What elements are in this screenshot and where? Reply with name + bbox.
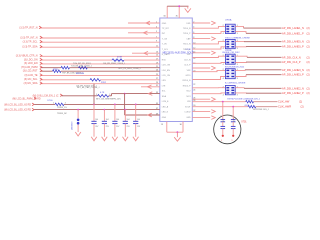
svg-text:0201: 0201 — [245, 105, 249, 107]
wire filter input 1 — [192, 56, 225, 57]
svg-text:(2): (2) — [307, 73, 310, 77]
ground arrow LED branch — [75, 132, 81, 136]
svg-text:25V: 25V — [106, 126, 110, 128]
wire row 93.6 with resistor tap — [125, 93, 160, 95]
svg-text:2: 2 — [109, 94, 110, 96]
svg-text:(2): (2) — [307, 68, 310, 72]
svg-text:3: 3 — [231, 116, 232, 118]
svg-text:22: 22 — [193, 84, 195, 86]
wire rail B y=109.3 — [34, 109, 160, 111]
svg-text:AP_DSI_LANE3_P: AP_DSI_LANE3_P — [282, 73, 304, 77]
tall branch x=93.7 — [93, 84, 95, 105]
svg-text:CHOKE_CM_2012: CHOKE_CM_2012 — [222, 52, 240, 54]
svg-text:21: 21 — [156, 66, 158, 68]
wire top power rail — [167, 5, 188, 7]
direction arrow row 93.6 — [148, 92, 152, 96]
svg-text:TLB_BK_LBN_Y2006_J: TLB_BK_LBN_Y2006_J — [71, 66, 92, 68]
svg-text:25: 25 — [156, 74, 158, 76]
svg-text:(2): (2) — [307, 26, 310, 30]
svg-text:4: 4 — [223, 33, 224, 35]
wire stub+arrow right y=68.0 — [192, 67, 210, 69]
svg-text:GND: GND — [162, 23, 167, 25]
svg-text:4: 4 — [223, 64, 224, 66]
svg-text:AP_DSI_CLK_N: AP_DSI_CLK_N — [282, 55, 301, 59]
svg-text:SDA: SDA — [162, 95, 167, 98]
svg-text:29: 29 — [156, 82, 158, 84]
svg-text:B2/R706: B2/R706 — [76, 73, 85, 75]
svg-text:TR20K_1%: TR20K_1% — [57, 107, 67, 109]
svg-text:4.7K: 4.7K — [100, 92, 105, 94]
direction arrow on row y=23.0 — [146, 21, 150, 25]
svg-text:13: 13 — [161, 124, 163, 126]
svg-text:(2): (2) — [307, 86, 310, 90]
svg-text:AP_DSI_LANE2_P: AP_DSI_LANE2_P — [282, 91, 304, 95]
wire left row y=56.3 — [42, 55, 160, 57]
svg-text:SDC_PK_R201_Y2006_J: SDC_PK_R201_Y2006_J — [118, 68, 140, 70]
svg-text:2: 2 — [220, 116, 221, 118]
junction crystal drop 2 — [232, 106, 234, 108]
svg-text:CLK_N: CLK_N — [184, 59, 191, 61]
wire left row y=79.8 — [41, 79, 91, 81]
wire left row y=53.2 — [132, 52, 160, 54]
junction dots rail B — [77, 109, 79, 111]
svg-text:CLIK_HWR: CLIK_HWR — [278, 105, 291, 109]
svg-text:(2): (2) — [307, 40, 310, 44]
svg-text:9: 9 — [156, 41, 157, 43]
svg-text:(M) LCD_BL_LED_K2 RD: (M) LCD_BL_LED_K2 RD — [4, 110, 31, 112]
wire filter input 2 — [192, 77, 225, 80]
svg-text:104: 104 — [106, 119, 109, 121]
resistor second row 67.7 — [79, 66, 88, 69]
wire filter output 1 — [235, 26, 243, 28]
svg-text:36: 36 — [180, 124, 182, 126]
wire row 113.6 — [125, 114, 160, 116]
svg-text:U_UART: U_UART — [162, 53, 171, 56]
IC U700 microcontroller body — [160, 18, 193, 122]
crystal branch pad dot — [232, 135, 234, 137]
svg-text:2: 2 — [223, 86, 224, 88]
junction crystal drop 1 — [222, 101, 224, 103]
svg-text:AP_DSI_LANE2_N: AP_DSI_LANE2_N — [282, 86, 304, 90]
svg-text:14: 14 — [193, 51, 195, 53]
svg-text:(3.3) TP_RST_N: (3.3) TP_RST_N — [19, 26, 37, 29]
wire left row y=75.6 — [41, 75, 160, 77]
svg-text:CLK_P: CLK_P — [184, 65, 191, 67]
svg-text:25V: 25V — [127, 126, 131, 128]
wire filter input 1 — [192, 87, 225, 89]
svg-text:GPIO: GPIO — [185, 75, 190, 77]
svg-text:1: 1 — [221, 140, 223, 142]
wire left row y=83.7 — [41, 83, 160, 85]
svg-text:AP_DSI_LANE1_N: AP_DSI_LANE1_N — [282, 26, 304, 30]
LED D700 branch — [77, 110, 79, 119]
wire filter output 2 — [235, 46, 246, 48]
ground arrow C74 — [123, 137, 129, 141]
svg-text:22P: 22P — [234, 118, 236, 122]
svg-text:TXD1_P: TXD1_P — [183, 49, 191, 51]
wire row CLIK_HWR y=106.7 — [192, 106, 248, 108]
svg-text:25V: 25V — [137, 126, 141, 128]
svg-text:17: 17 — [156, 59, 158, 61]
svg-text:32: 32 — [193, 110, 195, 112]
svg-text:24: 24 — [193, 89, 195, 91]
svg-text:4: 4 — [223, 48, 224, 50]
svg-text:AP_DSI_CLK_P: AP_DSI_CLK_P — [282, 60, 301, 64]
svg-text:35: 35 — [176, 16, 178, 18]
svg-text:LCM_E: LCM_E — [162, 101, 169, 103]
wire rail A y=104.1 — [34, 103, 55, 105]
ground arrow C75 — [133, 137, 139, 141]
svg-text:31: 31 — [156, 85, 158, 87]
wire left row y=67.7 — [41, 67, 62, 69]
capacitor C74 branch — [124, 110, 126, 122]
svg-text:(3) LDO_EN: (3) LDO_EN — [24, 62, 38, 65]
svg-text:LDO_ON: LDO_ON — [162, 65, 171, 67]
svg-text:(3.3) VBUS_CTR_N: (3.3) VBUS_CTR_N — [16, 55, 38, 58]
svg-text:103_PR_RXFY_Y2006_J: 103_PR_RXFY_Y2006_J — [103, 63, 125, 65]
svg-text:1: 1 — [231, 140, 233, 142]
svg-text:11: 11 — [156, 46, 158, 48]
svg-text:(M) 1V8_LCM_EN_1 (C: (M) 1V8_LCM_EN_1 (C — [33, 94, 59, 97]
svg-text:(2): (2) — [307, 45, 310, 49]
wire left row y=23.0 — [128, 22, 160, 24]
svg-text:3: 3 — [237, 94, 238, 96]
svg-text:TXD1_N: TXD1_N — [183, 44, 191, 46]
wire filter output 1 — [235, 41, 244, 43]
svg-text:TXD0_P: TXD0_P — [183, 33, 191, 35]
wire left row y=38.0 — [41, 37, 160, 39]
svg-text:AP_DSI_LANE1_P: AP_DSI_LANE1_P — [282, 31, 304, 35]
svg-text:2: 2 — [223, 55, 224, 57]
svg-text:25V: 25V — [116, 126, 120, 128]
wire row CLIK_HW y=101.7 — [192, 101, 245, 103]
svg-text:4: 4 — [223, 94, 224, 96]
svg-text:(M) LCD_BL_LED_A2 RD: (M) LCD_BL_LED_A2 RD — [4, 103, 31, 106]
svg-text:RXD0_N: RXD0_N — [183, 80, 191, 82]
svg-text:(2): (2) — [307, 31, 310, 35]
svg-text:8: 8 — [193, 37, 194, 39]
wire top pin vertical 1 — [166, 6, 168, 18]
ground arrow C73 — [112, 137, 118, 141]
svg-text:AP_DSI_LANE0_P: AP_DSI_LANE0_P — [282, 45, 304, 49]
svg-text:LCD_ON: LCD_ON — [162, 75, 171, 77]
svg-text:25V: 25V — [95, 126, 99, 128]
svg-text:(3) I2C_SDA: (3) I2C_SDA — [24, 82, 38, 85]
svg-text:473R: 473R — [53, 69, 58, 71]
svg-text:B2/R705: B2/R705 — [114, 60, 123, 62]
wire left row y=47.2 — [41, 46, 160, 48]
svg-text:(3) LCD_RST: (3) LCD_RST — [23, 70, 38, 73]
ground arrow bottom — [176, 132, 178, 137]
svg-text:(2): (2) — [301, 105, 304, 109]
svg-text:(M) LCD_BL_PWM_A2 RD: (M) LCD_BL_PWM_A2 RD — [13, 97, 41, 100]
wire stub+arrow right y=117.6 — [192, 117, 210, 119]
direction arrow on row y=86.8 — [148, 85, 152, 89]
wire filter output 2 — [235, 75, 246, 77]
wire row 95.8 — [62, 95, 95, 97]
wire left row y=32.8 — [128, 32, 160, 34]
svg-text:(3) LCD_TE: (3) LCD_TE — [24, 74, 37, 77]
wire filter input 2 — [192, 47, 225, 49]
svg-text:104: 104 — [116, 119, 119, 121]
wire filter output 1 — [235, 69, 245, 72]
svg-text:(3.3) TP_INT_N: (3.3) TP_INT_N — [20, 36, 37, 39]
svg-text:104: 104 — [137, 119, 140, 121]
svg-text:3: 3 — [237, 78, 238, 80]
wire bottom pin vertical 1 — [166, 122, 168, 133]
svg-text:B_CM/RXD0_CHOKE: B_CM/RXD0_CHOKE — [225, 82, 246, 84]
wire left row y=28.0 — [40, 27, 160, 29]
svg-text:5: 5 — [156, 31, 157, 33]
svg-text:3: 3 — [237, 33, 238, 35]
junction top rail — [178, 5, 180, 7]
svg-text:CLIK_HW: CLIK_HW — [278, 100, 290, 104]
svg-text:3: 3 — [156, 26, 157, 28]
svg-text:XOUT: XOUT — [185, 106, 191, 108]
wire filter input 1 — [192, 42, 225, 44]
svg-text:2: 2 — [65, 102, 66, 104]
junction bottom rail — [177, 131, 179, 133]
svg-text:2: 2 — [223, 40, 224, 42]
crystal branch pad dot — [222, 135, 224, 137]
svg-text:(2): (2) — [307, 60, 310, 64]
svg-text:EXTSLPCLK32K CLIK/R220K 10%_J: EXTSLPCLK32K CLIK/R220K 10%_J — [228, 99, 260, 101]
wire top pin vertical 2 — [178, 6, 180, 18]
svg-text:TP_INT: TP_INT — [162, 28, 170, 30]
svg-text:3: 3 — [237, 48, 238, 50]
wire filter input 1 — [192, 26, 225, 28]
svg-text:LED_A: LED_A — [162, 105, 169, 108]
svg-text:LED0603: LED0603 — [72, 121, 74, 130]
svg-text:T_CN: T_CN — [162, 39, 168, 41]
crystal Y700 circle — [214, 115, 241, 144]
svg-text:19: 19 — [156, 62, 158, 64]
wire stub+arrow right y=38.6 — [192, 38, 210, 40]
svg-text:U705A: U705A — [225, 19, 232, 22]
capacitor C73 branch — [114, 104, 116, 121]
wire stub+arrow right y=111.4 — [192, 110, 210, 112]
wire bottom pin vertical 2 — [182, 122, 184, 133]
svg-text:XIN: XIN — [187, 101, 191, 103]
wire left row y=42.2 — [41, 41, 160, 43]
svg-text:473R: 473R — [117, 56, 122, 58]
wire filter input 2 — [192, 92, 225, 95]
svg-text:104: 104 — [127, 119, 130, 121]
svg-text:LED_K: LED_K — [162, 112, 169, 114]
svg-text:SET_ML_CAP_CLOSE_J: SET_ML_CAP_CLOSE_J — [77, 86, 99, 89]
svg-text:22P: 22P — [223, 118, 225, 122]
svg-text:LDO_EN: LDO_EN — [162, 70, 171, 72]
wire filter output 2 — [235, 32, 246, 34]
svg-text:4: 4 — [223, 78, 224, 80]
svg-text:13: 13 — [156, 52, 158, 54]
wire left row y=71.2 — [41, 70, 53, 72]
svg-text:CAP: CAP — [186, 38, 191, 41]
svg-text:60: 60 — [164, 16, 166, 18]
vertical branch from row 93.6 down to row 113.6 — [124, 94, 126, 115]
wire filter input 1 — [192, 70, 225, 71]
svg-text:T_SCL: T_SCL — [162, 49, 169, 51]
svg-text:7: 7 — [156, 36, 157, 38]
svg-text:2: 2 — [193, 21, 194, 23]
svg-text:1: 1 — [156, 21, 157, 23]
svg-text:D700: D700 — [48, 100, 54, 102]
svg-text:1: 1 — [53, 102, 54, 104]
wire filter input 2 — [192, 62, 225, 65]
svg-text:(3) I2C_SCL: (3) I2C_SCL — [24, 78, 38, 81]
direction arrow on row y=53.2 — [144, 51, 148, 55]
capacitor C75 branch — [135, 104, 137, 121]
svg-text:2: 2 — [223, 69, 224, 71]
capacitor C72 branch — [103, 110, 105, 122]
svg-text:TXD0_N: TXD0_N — [183, 28, 191, 30]
ground arrow C72 — [102, 137, 108, 141]
direction arrow on row y=32.8 — [144, 31, 148, 35]
svg-text:T_VD: T_VD — [162, 44, 168, 46]
capacitor C71 branch — [93, 104, 95, 121]
svg-text:(3) LDO_ON: (3) LDO_ON — [24, 58, 38, 61]
crystal branch x=222.8 — [222, 102, 224, 120]
ground arrow C71 — [91, 137, 97, 141]
svg-text:(3.3) TP_SCL: (3.3) TP_SCL — [23, 41, 39, 44]
wire stub+arrow right y=99.2 — [192, 98, 210, 100]
svg-text:16: 16 — [193, 58, 195, 60]
junction dots rail A — [93, 104, 95, 106]
svg-text:104: 104 — [95, 119, 98, 121]
svg-text:NC/R220K 10%_J: NC/R220K 10%_J — [253, 109, 269, 111]
svg-text:(3.3) TP_SDA: (3.3) TP_SDA — [22, 46, 38, 49]
wire left row y=86.8 — [141, 86, 160, 88]
svg-text:EXCHOKECM_2012: EXCHOKECM_2012 — [225, 67, 245, 69]
svg-text:2: 2 — [223, 25, 224, 27]
svg-text:(2): (2) — [307, 55, 310, 59]
svg-text:(2): (2) — [299, 100, 302, 104]
svg-text:15: 15 — [156, 55, 158, 57]
wire bottom rail — [167, 131, 183, 133]
direction arrow row 113.6 — [148, 113, 152, 117]
svg-text:27: 27 — [156, 78, 158, 80]
svg-text:AP_DSI_LANE0_N: AP_DSI_LANE0_N — [282, 40, 304, 44]
wire filter output 1 — [235, 87, 244, 90]
wire left row y=63.9 — [41, 63, 160, 65]
wire stub+arrow right y=52.8 — [192, 52, 210, 54]
wire filter output 1 — [235, 56, 247, 57]
wire filter output 2 — [235, 92, 246, 94]
svg-text:(2): (2) — [307, 91, 310, 95]
wire stub+arrow right y=23.0 — [192, 22, 210, 24]
svg-text:R702: R702 — [101, 82, 107, 84]
wire filter input 2 — [192, 32, 225, 34]
wire left row y=60.1 — [41, 59, 113, 61]
svg-text:LRS: LRS — [162, 80, 167, 82]
svg-text:23: 23 — [156, 70, 158, 72]
svg-text:X701: X701 — [241, 122, 247, 124]
crystal branch x=233.2 — [232, 107, 234, 120]
svg-text:TR20K_NC: TR20K_NC — [57, 113, 68, 115]
power VCC arrow top — [187, 6, 189, 8]
svg-text:CLK32: CLK32 — [184, 112, 191, 114]
svg-text:AP_DSI_LANE3_N: AP_DSI_LANE3_N — [282, 68, 304, 72]
svg-text:RXD0_P: RXD0_P — [183, 85, 191, 87]
svg-text:TXD0_COMMON_CHOKE: TXD0_COMMON_CHOKE — [225, 37, 250, 39]
wire filter output 2 — [235, 61, 246, 63]
svg-text:SET_103_SENYBNPN_10%: SET_103_SENYBNPN_10% — [96, 98, 121, 100]
